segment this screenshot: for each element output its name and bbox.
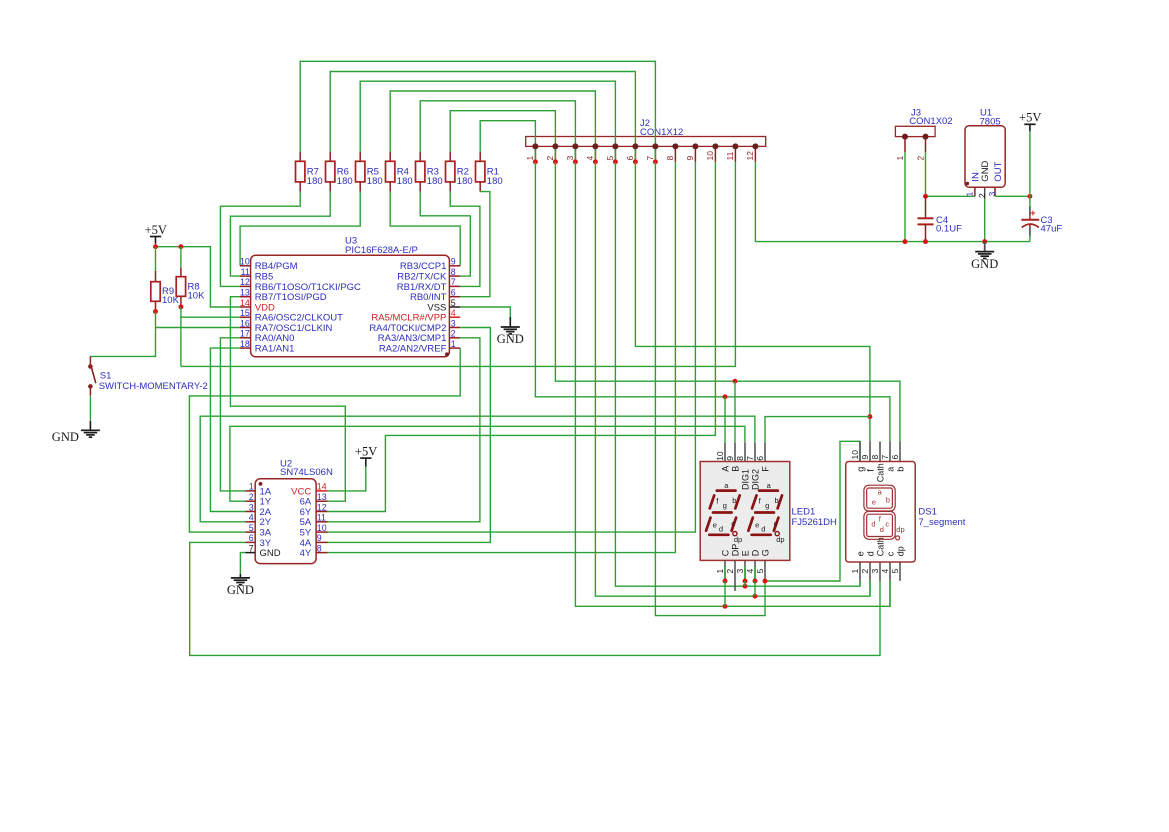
LED1 digit segment b [735, 495, 739, 508]
wire C3 to ground bus [1029, 236, 1031, 242]
U2 right pin 8 4Y [316, 552, 328, 554]
LED1 digit segment a [759, 489, 778, 492]
LED1 digit segment g [755, 511, 774, 514]
ground GND at S1 [81, 429, 100, 431]
U2 right pin 14 VCC [316, 490, 328, 492]
resistor R5 180 [359, 152, 361, 161]
wire U1 GND pin to ground bus [984, 199, 986, 242]
svg-text:b: b [895, 467, 905, 472]
display LED1 FJ5261DH [700, 462, 790, 561]
U3 left pin 14 VDD [240, 306, 251, 308]
svg-text:5: 5 [451, 298, 456, 308]
svg-text:4: 4 [585, 156, 595, 161]
svg-text:7805: 7805 [980, 116, 1001, 127]
resistor R8 10K [180, 247, 182, 268]
svg-text:e: e [755, 520, 759, 529]
wire S1 to ground [89, 396, 91, 421]
U2 left pin 1 1A [246, 490, 256, 492]
wire U2 pin 12 6Y to J2 pin 10 [328, 162, 716, 512]
svg-text:1: 1 [895, 156, 905, 161]
svg-text:+5V: +5V [355, 445, 377, 459]
svg-text:10K: 10K [188, 290, 206, 301]
wire input net to U1 IN [926, 195, 975, 197]
svg-text:18: 18 [240, 339, 250, 349]
svg-text:dp: dp [895, 546, 905, 556]
DS1 bottom pin 5 dp [899, 562, 901, 581]
LED1 digit segment f [710, 495, 715, 508]
svg-text:14: 14 [317, 482, 327, 492]
J3 pin 2 [925, 137, 927, 153]
LED1 top pin 7 DIG2 [754, 443, 756, 462]
wire R6 top to J2 pin 6 [330, 72, 635, 162]
svg-text:6: 6 [625, 156, 635, 161]
J2 pin 7 stub [654, 146, 656, 161]
wire R4 top to J2 pin 4 [390, 91, 595, 162]
DS1 top pin 6 b [899, 442, 901, 462]
node segment A junction at LED1 pin 10 [723, 394, 728, 399]
svg-text:180: 180 [337, 176, 353, 187]
node segment F junction [867, 414, 872, 419]
wire U2 pin 4 2Y to LED1 pin 7 [200, 416, 755, 522]
node segment C junction at LED1 pin 1 [723, 604, 728, 609]
svg-text:c: c [885, 551, 895, 556]
U3 right pin 1 RA2/AN2/VREF [449, 347, 460, 349]
svg-text:9: 9 [860, 455, 870, 460]
node segment E junction at LED1 pin 3 [743, 584, 748, 589]
svg-text:8: 8 [317, 543, 322, 553]
svg-text:b: b [886, 496, 890, 505]
LED1 digit segment f [752, 495, 757, 508]
U3 right pin 2 RA3/AN3/CMP1 [449, 337, 460, 339]
wire U1 OUT to +5V rail [995, 195, 1030, 197]
svg-text:c: c [885, 519, 889, 528]
wire R7 top to J2 pin 7 [300, 61, 655, 162]
svg-text:9: 9 [451, 257, 456, 267]
svg-text:5: 5 [890, 569, 900, 574]
LED1 digit segment g [713, 511, 732, 514]
DS1 bottom pin 3 Cath [879, 562, 881, 581]
wire R5 top to J2 pin 5 [360, 81, 615, 162]
wire U2 pin 2 1Y to LED1 pin 8 [230, 426, 745, 501]
svg-text:17: 17 [240, 329, 250, 339]
U3 right pin 3 RA4/T0CKI/CMP2 [449, 327, 460, 329]
svg-text:e: e [713, 520, 717, 529]
svg-text:g: g [723, 501, 727, 510]
svg-text:GND: GND [227, 583, 254, 597]
svg-text:6: 6 [451, 288, 456, 298]
J2 pins 1-7 junction dots [533, 159, 538, 164]
svg-text:SN74LS06N: SN74LS06N [280, 467, 333, 478]
wire U2 VCC to +5V [328, 467, 366, 491]
J2 pin 5 stub [614, 146, 616, 161]
svg-text:FJ5261DH: FJ5261DH [792, 517, 838, 528]
svg-text:0.1UF: 0.1UF [936, 224, 962, 235]
svg-text:15: 15 [240, 308, 250, 318]
svg-text:d: d [865, 551, 875, 556]
resistor R3 180 [419, 152, 421, 161]
svg-text:180: 180 [397, 176, 413, 187]
wire U3 pin 17 RA0 to U2 pin 1 [220, 338, 245, 491]
LED1 digit segment c [774, 518, 779, 531]
svg-text:1: 1 [525, 156, 535, 161]
J2 pin 10 stub [714, 146, 716, 161]
U2 right pin 11 5A [316, 521, 328, 523]
svg-text:7: 7 [451, 277, 456, 287]
svg-text:1: 1 [850, 569, 860, 574]
svg-text:DIG1: DIG1 [740, 469, 750, 490]
svg-text:A: A [720, 466, 730, 472]
LED1 digit segment c [732, 518, 737, 531]
wire U3 pin 3 RA4 to U2 pin 9 [328, 328, 491, 543]
ground GND at U2 [231, 577, 250, 579]
wire DS1 pin 2 to D bus [869, 581, 871, 596]
wire J2 pin 2 segment B net [555, 162, 900, 442]
wire R4 to U3 pin 9 [390, 192, 460, 266]
svg-text:4Y: 4Y [300, 548, 312, 559]
svg-text:PIC16F628A-E/P: PIC16F628A-E/P [345, 245, 418, 256]
capacitor C4 0.1UF [925, 196, 927, 218]
svg-text:12: 12 [745, 151, 755, 161]
LED1 top pin 9 B [734, 443, 736, 462]
U3 right pin 9 RB3/CCP1 [449, 265, 460, 267]
svg-text:D: D [750, 549, 760, 556]
svg-text:1: 1 [965, 192, 975, 197]
svg-text:RA2/AN2/VREF: RA2/AN2/VREF [379, 344, 447, 355]
wire J2 pin 1 segment A net [535, 162, 890, 442]
svg-text:2: 2 [977, 193, 987, 198]
wire R2 to U3 pin 7 [450, 192, 480, 287]
DS1 top pin 8 Cath [879, 442, 881, 462]
wire LED1 pin 9 branch [734, 381, 736, 443]
U3 right pin 5 VSS [449, 306, 460, 308]
LED1 digit segment e [748, 518, 752, 531]
svg-text:F: F [760, 466, 770, 472]
wire +5V rail to VDD [155, 244, 157, 247]
svg-text:GND: GND [980, 160, 991, 181]
svg-text:DIG2: DIG2 [750, 469, 760, 490]
svg-text:13: 13 [240, 288, 250, 298]
wire R1 top to J2 pin 1 [480, 121, 535, 162]
U2 left pin 5 3A [246, 531, 256, 533]
node ground bus junctions [903, 239, 908, 244]
svg-text:g: g [765, 501, 769, 510]
ground GND at U3 VSS [501, 326, 520, 328]
LED1 bottom pin 2 DP [734, 560, 736, 591]
U2 right pin 9 4A [316, 541, 328, 543]
LED1 top pin 6 F [764, 443, 766, 462]
LED1 top pin 10 A [724, 443, 726, 462]
LED1 digit dp [733, 532, 737, 536]
wire ground bus [755, 162, 1030, 242]
svg-text:6: 6 [755, 456, 765, 461]
IC U2 SN74LS06N [255, 479, 316, 564]
svg-text:+5V: +5V [1019, 111, 1041, 125]
wire LED1 pin 1 to C bus [724, 581, 726, 606]
svg-text:180: 180 [367, 176, 383, 187]
svg-text:10: 10 [317, 523, 327, 533]
svg-text:8: 8 [665, 156, 675, 161]
wire R1 to U3 pin 6 [460, 192, 490, 297]
U2 left pin 7 GND [246, 552, 256, 554]
svg-text:GND: GND [971, 257, 998, 271]
svg-text:e: e [872, 498, 876, 507]
wire U3 pin 18 RA1 to U2 pin 3 [210, 348, 245, 511]
svg-text:GND: GND [497, 332, 524, 346]
U3 right pin 7 RB1/RX/DT [449, 285, 460, 287]
svg-text:RA1/AN1: RA1/AN1 [255, 344, 295, 355]
svg-text:DS1: DS1 [918, 507, 936, 518]
svg-text:3: 3 [565, 156, 575, 161]
svg-text:10: 10 [715, 451, 725, 461]
connector J3 CON1X02 [895, 126, 935, 136]
svg-text:GND: GND [52, 430, 79, 444]
svg-text:4: 4 [745, 569, 755, 574]
svg-text:2: 2 [451, 329, 456, 339]
svg-text:180: 180 [427, 176, 443, 187]
J2 pin 12 stub [754, 146, 756, 161]
wire LED1 pin 6 branch [765, 417, 870, 443]
wire +5V rail down to C3 [1029, 131, 1031, 206]
DS1 top pin 7 a [889, 442, 891, 462]
svg-text:13: 13 [317, 492, 327, 502]
connector J2 CON1X12 [526, 137, 766, 147]
display DS1 7_segment [846, 462, 916, 563]
svg-text:LED1: LED1 [792, 507, 816, 518]
svg-text:CON1X02: CON1X02 [909, 116, 952, 127]
wire RA6 net to J2 pin 11 [181, 162, 736, 367]
svg-text:+5V: +5V [145, 223, 167, 237]
svg-text:2: 2 [860, 569, 870, 574]
svg-text:8: 8 [735, 456, 745, 461]
wire R3 to U3 pin 8 [420, 192, 470, 277]
U1 pin 2 [984, 187, 986, 199]
wire U2 pin 6 3Y to DS1 pin 3 [190, 542, 880, 655]
wire J2 pin 6 segment F net [635, 162, 870, 442]
wire U2 pin 7 to ground [240, 553, 245, 574]
svg-text:d: d [880, 525, 884, 534]
U3 left pin 16 RA7/OSC1/CLKIN [240, 327, 251, 329]
J3 pin 1 [904, 137, 906, 153]
U1 pin 3 [994, 187, 996, 196]
U3 left pin 10 RB4/PGM [240, 265, 251, 267]
svg-text:c: c [731, 519, 735, 528]
svg-text:d: d [719, 525, 723, 534]
svg-text:180: 180 [307, 176, 323, 187]
DS1 bottom pin 1 e [859, 562, 861, 581]
U2 right pin 10 5Y [316, 531, 328, 533]
node input net junction [923, 194, 928, 199]
svg-text:3: 3 [451, 318, 456, 328]
wire J2 pin 3 segment C net [575, 162, 890, 607]
J2 pin 6 stub [634, 146, 636, 161]
DS1 digit outline lower cell [864, 511, 895, 539]
LED1 digit segment e [706, 518, 710, 531]
LED1 pin end dots [723, 579, 728, 584]
U3 left pin 15 RA6/OSC2/CLKOUT [240, 316, 251, 318]
LED1 digit segment a [717, 489, 736, 492]
svg-text:1: 1 [715, 569, 725, 574]
resistor R6 180 [329, 152, 331, 161]
svg-text:b: b [775, 496, 779, 505]
svg-text:2: 2 [725, 569, 735, 574]
J2 pin 3 stub [574, 146, 576, 161]
J2 pin 2 stub [554, 146, 556, 161]
J2 pin 11 stub [734, 146, 736, 161]
svg-text:8: 8 [451, 267, 456, 277]
svg-text:4: 4 [451, 308, 456, 318]
svg-text:1: 1 [451, 339, 456, 349]
U3 left pin 11 RB5 [240, 275, 251, 277]
J2 pin 4 stub [594, 146, 596, 161]
IC U3 PIC16F628A-E/P [251, 255, 450, 357]
svg-text:2: 2 [915, 156, 925, 161]
svg-text:7: 7 [745, 456, 755, 461]
svg-text:c: c [774, 519, 778, 528]
svg-text:g: g [855, 467, 865, 472]
svg-text:dp: dp [896, 525, 904, 534]
node R8 bottom junction [178, 304, 183, 309]
LED1 bottom pin 5 G [764, 560, 766, 581]
U3 left pin 18 RA1/AN1 [240, 347, 251, 349]
svg-text:B: B [730, 466, 740, 472]
svg-text:1: 1 [249, 482, 254, 492]
svg-text:180: 180 [487, 176, 503, 187]
LED1 top pin 8 DIG1 [744, 443, 746, 462]
LED1 bottom pin 4 D [754, 560, 756, 581]
wire LED1 pin 4 to D bus [754, 581, 756, 596]
svg-text:16: 16 [240, 318, 250, 328]
wire R7 to U3 pin 12 [220, 192, 300, 287]
resistor R1 180 [479, 152, 481, 161]
svg-text:C: C [720, 549, 730, 556]
LED1 digit dp [775, 532, 779, 536]
wire R6 to U3 pin 11 [230, 192, 330, 277]
J2 pin 9 stub [694, 146, 696, 161]
svg-text:12: 12 [317, 502, 327, 512]
svg-text:Cath: Cath [875, 537, 885, 556]
svg-text:10: 10 [850, 450, 860, 460]
wire U3 pin 13 RB7 to U2 pin 13 [230, 297, 345, 502]
wire R2 top to J2 pin 2 [450, 111, 555, 162]
LED1 bottom pin 3 E [744, 560, 746, 581]
svg-text:3: 3 [735, 569, 745, 574]
svg-text:6: 6 [249, 533, 254, 543]
svg-text:e: e [855, 551, 865, 556]
node segment B junction at LED1 pin 9 [733, 379, 738, 384]
svg-text:9: 9 [317, 533, 322, 543]
svg-text:10: 10 [705, 151, 715, 161]
resistor R4 180 [389, 152, 391, 161]
wire J3 pin 2 to +5V input net [925, 152, 927, 196]
node segment D junction at LED1 pin 4 [753, 594, 758, 599]
DS1 dp circle [896, 536, 900, 540]
svg-text:SWITCH-MOMENTARY-2: SWITCH-MOMENTARY-2 [99, 381, 208, 392]
U1 pin 1 [974, 187, 976, 196]
svg-text:2: 2 [249, 492, 254, 502]
svg-text:7: 7 [880, 455, 890, 460]
wire DS1 pin 4 to C bus [889, 581, 891, 606]
node +5V junctions [153, 244, 158, 249]
svg-text:10: 10 [240, 257, 250, 267]
svg-text:4: 4 [249, 513, 254, 523]
wire J2 pin 4 segment D net [595, 162, 870, 596]
wire U2 pin 10 5Y to J2 pin 9 [328, 162, 696, 532]
node R9 bottom junction [153, 309, 158, 314]
svg-text:dp: dp [734, 535, 742, 544]
U3 right pin 8 RB2/TX/CK [449, 275, 460, 277]
resistor R9 10K [155, 247, 157, 271]
svg-text:a: a [885, 467, 895, 472]
DS1 bottom pin 2 d [869, 562, 871, 581]
node +5V rail junction [1027, 194, 1032, 199]
U3 right pin 4 RA5/MCLR#/VPP [449, 316, 460, 318]
svg-text:12: 12 [240, 277, 250, 287]
switch S1 SWITCH-MOMENTARY-2 [89, 356, 91, 366]
U3 right pin 6 RB0/INT [449, 296, 460, 298]
capacitor C3 47uF [1029, 207, 1031, 217]
svg-text:5: 5 [755, 569, 765, 574]
wire LED1 pin 5 to DS1 pin 10 [765, 441, 860, 581]
svg-text:11: 11 [317, 513, 326, 523]
LED1 digit segment d [709, 533, 728, 536]
svg-text:G: G [760, 549, 770, 556]
svg-text:8: 8 [870, 455, 880, 460]
U2 right pin 12 6Y [316, 511, 328, 513]
svg-text:7_segment: 7_segment [918, 517, 965, 528]
svg-text:Cath: Cath [875, 463, 885, 482]
LED1 bottom pin 1 C [724, 560, 726, 581]
U2 right pin 13 6A [316, 500, 328, 502]
U2 left pin 3 2A [246, 511, 256, 513]
DS1 bottom pin 4 c [889, 562, 891, 581]
DS1 top pin 9 f [869, 442, 871, 462]
svg-text:5: 5 [249, 523, 254, 533]
wire R8 node to U3 pin 15 and east [180, 307, 182, 367]
DS1 top pin 10 g [859, 442, 861, 462]
J2 pin 1 stub [534, 146, 536, 161]
wire R5 to U3 pin 10 [240, 192, 360, 266]
svg-text:9: 9 [685, 156, 695, 161]
U2 left pin 4 2Y [246, 521, 256, 523]
svg-text:47uF: 47uF [1041, 224, 1063, 235]
U3 left pin 12 RB6/T1OSO/T1CKI/PGC [240, 285, 251, 287]
svg-text:180: 180 [457, 176, 473, 187]
J2 pin circles [532, 143, 538, 149]
U3 left pin 17 RA0/AN0 [240, 337, 251, 339]
wire J3 pin 1 to ground bus [904, 152, 906, 241]
svg-text:14: 14 [240, 298, 250, 308]
regulator U1 7805 [965, 126, 1005, 188]
wire DS1 pin 1 to E bus [859, 581, 861, 586]
resistor R7 180 [299, 152, 301, 161]
DS1 digit outline upper cell [864, 485, 895, 511]
svg-text:b: b [732, 496, 736, 505]
svg-text:2: 2 [545, 156, 555, 161]
wire U3 VSS to ground [460, 307, 510, 317]
svg-text:11: 11 [725, 151, 735, 160]
svg-text:5: 5 [605, 156, 615, 161]
svg-text:CON1X12: CON1X12 [640, 127, 683, 138]
svg-text:6: 6 [890, 455, 900, 460]
svg-text:7: 7 [249, 543, 254, 553]
svg-text:3: 3 [870, 569, 880, 574]
ground GND at power section [984, 242, 986, 252]
svg-text:4: 4 [880, 569, 890, 574]
svg-text:DP: DP [730, 544, 740, 557]
svg-text:7: 7 [645, 156, 655, 161]
svg-text:d: d [871, 519, 875, 528]
wire R9 node to U3 pin 16 and S1 [90, 312, 155, 357]
